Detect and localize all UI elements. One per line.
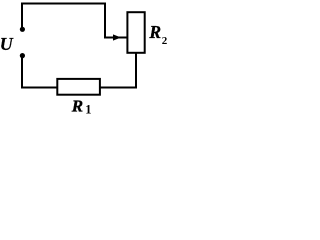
svg-text:2: 2: [162, 35, 168, 47]
wiper arrowhead: [113, 34, 121, 40]
wire right upper vertical: [104, 3, 106, 39]
resistor R1: [57, 79, 100, 95]
wire bottom right horizontal: [100, 87, 137, 89]
node lower terminal dot: [20, 53, 25, 58]
rheostat R2 box: [127, 12, 144, 53]
wire wiper horizontal: [104, 37, 127, 39]
svg-text:R: R: [71, 97, 83, 116]
node upper terminal dot: [20, 27, 25, 32]
wire left upper vertical: [21, 3, 23, 30]
svg-text:1: 1: [85, 102, 91, 116]
svg-text:R: R: [148, 22, 161, 42]
wire right lower vertical: [135, 53, 137, 89]
svg-text:U: U: [0, 34, 14, 54]
wire bottom left horizontal: [21, 87, 58, 89]
wire top horizontal: [21, 3, 106, 5]
wire left lower vertical: [21, 56, 23, 89]
